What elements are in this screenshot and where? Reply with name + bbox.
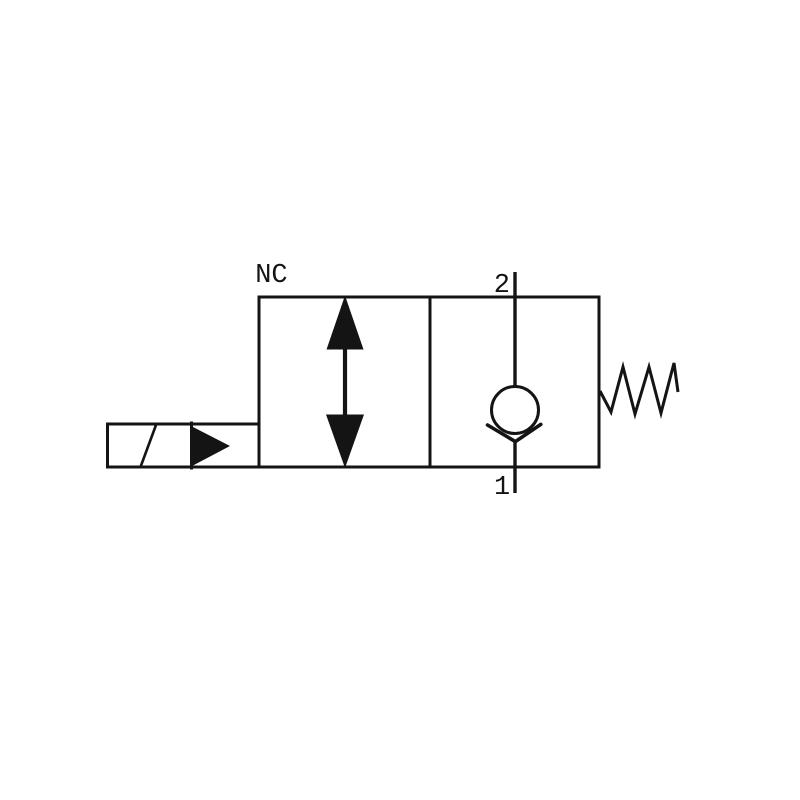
- solenoid armature line: [190, 422, 193, 470]
- solenoid actuation triangle: [193, 427, 230, 466]
- flow arrow shaft (left position, double-headed): [343, 340, 347, 424]
- svg-text:NC: NC: [255, 261, 287, 291]
- valve envelope (2-position body): [259, 297, 599, 467]
- port 2 line: [513, 272, 516, 387]
- solenoid slash: [141, 425, 157, 467]
- arrowhead up: [327, 296, 364, 350]
- spring (return spring, right side): [600, 363, 678, 414]
- svg-text:2: 2: [494, 271, 510, 301]
- svg-text:1: 1: [494, 473, 510, 503]
- arrowhead down: [326, 415, 364, 469]
- poppet circle U1: [492, 387, 539, 434]
- port 1 line: [513, 441, 516, 493]
- valve seat V: [488, 424, 541, 441]
- position divider: [429, 297, 432, 467]
- solenoid coil box: [108, 424, 260, 467]
